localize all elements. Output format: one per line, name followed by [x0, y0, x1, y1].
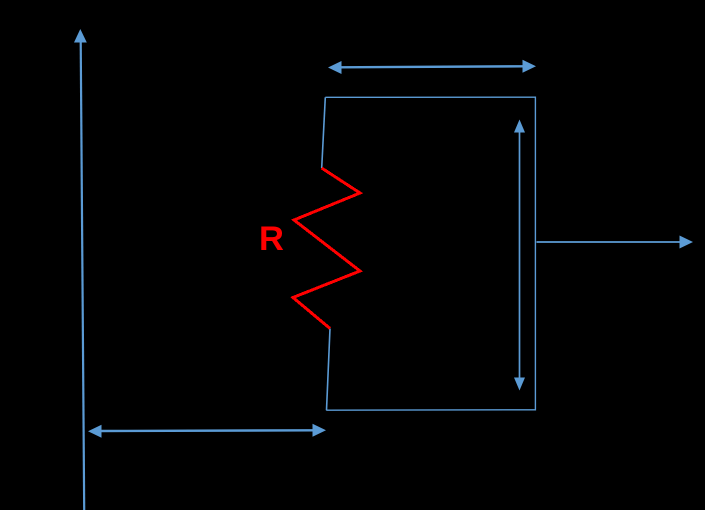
svg-text:R: R [259, 220, 284, 258]
